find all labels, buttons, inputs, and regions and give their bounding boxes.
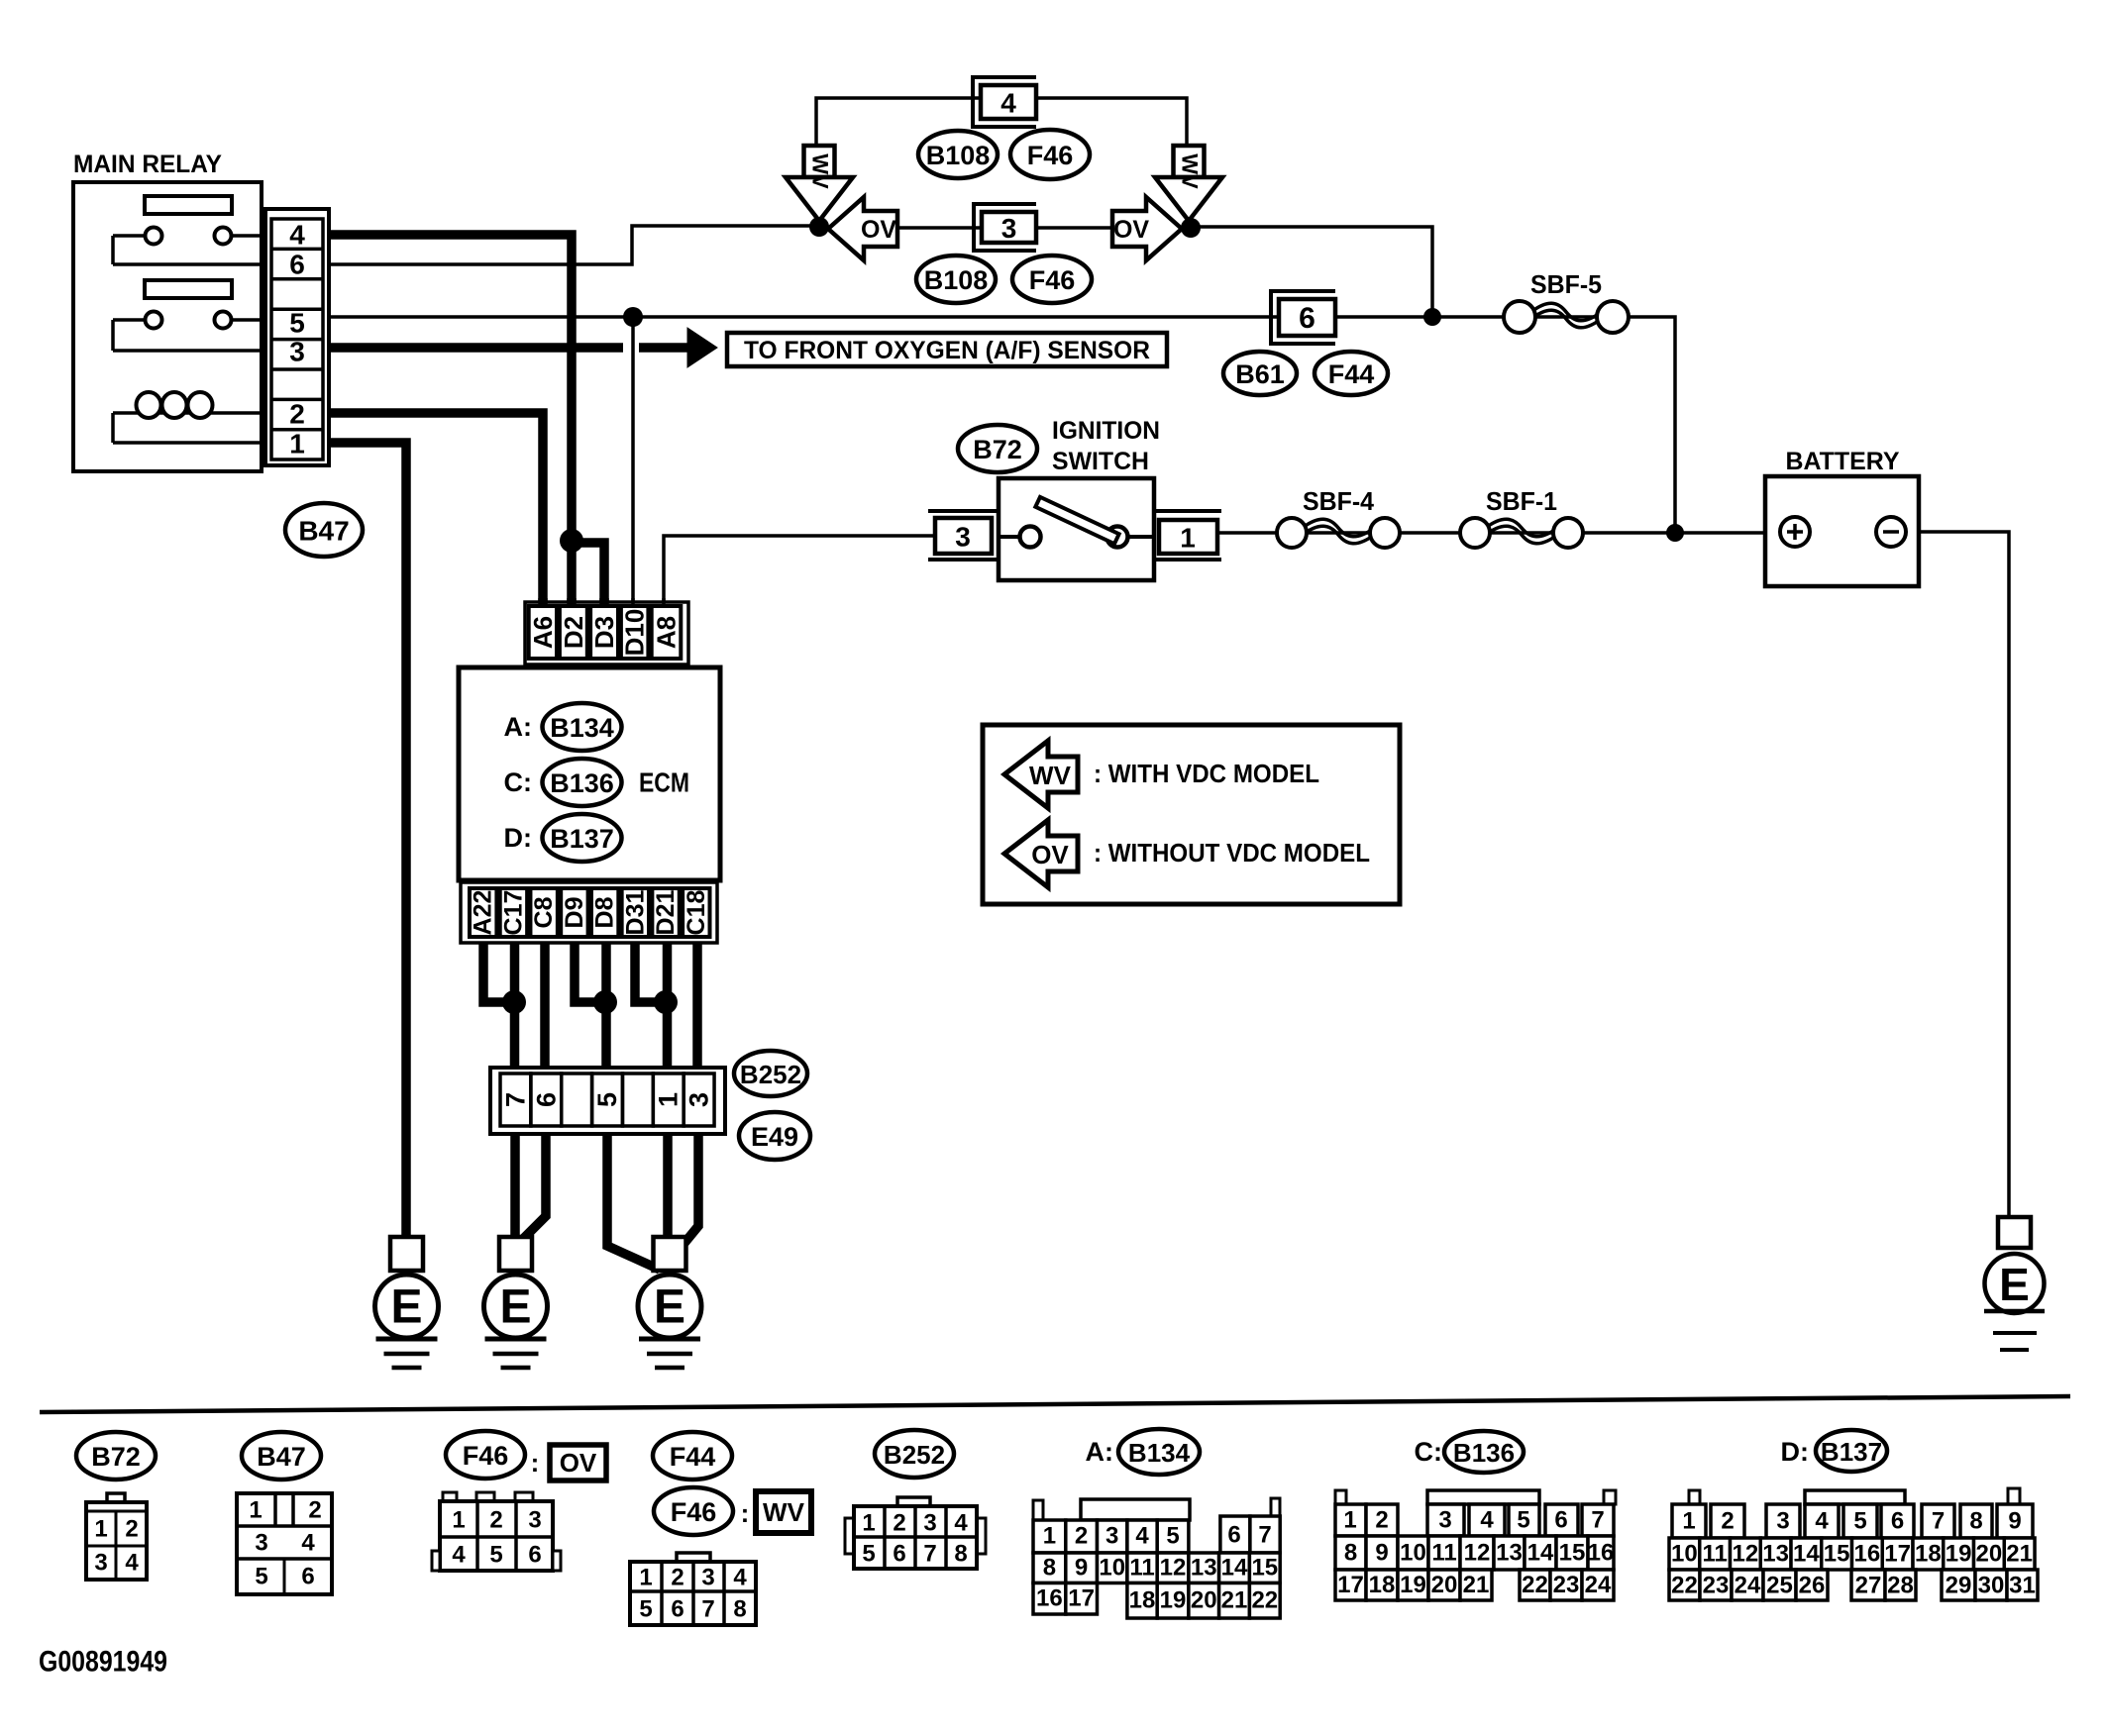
svg-text:26: 26 (1799, 1573, 1826, 1599)
svg-text:3: 3 (94, 1550, 107, 1577)
wire: ECM D21 down to B252 pin 1 (thick) (663, 939, 673, 1073)
svg-text:OV: OV (861, 216, 896, 244)
svg-text:1: 1 (862, 1510, 875, 1537)
wire: ECM A22 down to junction (thick) (483, 939, 514, 1002)
svg-text:3: 3 (289, 337, 305, 367)
svg-text:8: 8 (1969, 1508, 1982, 1535)
main relay connector strip B47 pins (265, 209, 329, 465)
svg-text:22: 22 (1671, 1573, 1698, 1599)
svg-text:1: 1 (249, 1497, 262, 1524)
wire: ECM D8 down to B252 pin 5 (thick) (601, 939, 611, 1073)
svg-text:E49: E49 (751, 1122, 798, 1152)
connector oval E49 (739, 1112, 810, 1160)
svg-text:16: 16 (1588, 1540, 1615, 1567)
wire: battery negative to right ground (thin) (1906, 532, 2009, 1221)
svg-text:12: 12 (1160, 1555, 1187, 1582)
svg-text:4: 4 (1480, 1507, 1494, 1534)
wire: branch from D2 node to ECM D3 (thick) (572, 543, 604, 610)
svg-text:19: 19 (1160, 1587, 1187, 1614)
svg-text:SBF-5: SBF-5 (1530, 269, 1602, 299)
svg-text:22: 22 (1251, 1587, 1278, 1614)
junction dot right WV/OV arrows (1181, 218, 1201, 238)
wire: ECM D31 down to junction (thick) (635, 939, 666, 1002)
svg-text:WV: WV (1029, 761, 1072, 790)
svg-text:20: 20 (1976, 1541, 2003, 1568)
wire: right junction down to SBF-5 line (thin) (1191, 227, 1432, 317)
svg-text:1: 1 (1180, 523, 1196, 554)
svg-text:5: 5 (289, 308, 305, 339)
svg-text:B108: B108 (924, 265, 989, 295)
svg-text:C:: C: (504, 767, 533, 797)
connector label B47 oval (285, 503, 363, 557)
svg-text:D:: D: (504, 823, 533, 853)
pinout connector F46 (443, 1492, 457, 1501)
svg-text:6: 6 (301, 1564, 314, 1590)
right WV arrow (with VDC) (1174, 146, 1205, 177)
svg-text:2: 2 (893, 1510, 905, 1537)
svg-text:B108: B108 (926, 141, 991, 170)
svg-text::: : (741, 1498, 750, 1528)
connector oval B61 (1223, 352, 1297, 395)
svg-text:6: 6 (1891, 1508, 1904, 1535)
svg-text:7: 7 (1591, 1507, 1604, 1534)
svg-text:D21: D21 (652, 889, 680, 935)
pinout connector B134 (1081, 1499, 1190, 1520)
svg-text:5: 5 (1853, 1508, 1866, 1535)
svg-text:ECM: ECM (639, 767, 689, 798)
svg-text:2: 2 (1375, 1507, 1388, 1534)
battery box (1765, 476, 1919, 586)
wire: B252 pin 3 to ground (thick) (681, 1126, 698, 1248)
svg-text:10: 10 (1400, 1540, 1426, 1567)
svg-text:F46: F46 (1029, 265, 1076, 295)
relay contact 1 terminals and wiring (113, 234, 146, 238)
svg-text:4: 4 (1135, 1523, 1149, 1550)
svg-text:A6: A6 (528, 616, 558, 649)
svg-text:7: 7 (701, 1596, 714, 1623)
svg-text:7: 7 (500, 1092, 530, 1107)
svg-text:F44: F44 (670, 1442, 716, 1472)
svg-text:D9: D9 (561, 897, 588, 929)
svg-text:8: 8 (1344, 1540, 1357, 1567)
pinout connector B252 (897, 1497, 930, 1506)
svg-text:13: 13 (1496, 1540, 1523, 1567)
svg-text:3: 3 (1001, 213, 1017, 244)
junction dot SBF-5 branch on connector-6 line (1423, 308, 1441, 326)
svg-text:B136: B136 (550, 768, 614, 798)
pinout oval B47 (242, 1432, 321, 1480)
svg-text:3: 3 (528, 1507, 541, 1534)
svg-text:11: 11 (1431, 1540, 1456, 1567)
svg-text:3: 3 (923, 1510, 936, 1537)
svg-text:D8: D8 (591, 896, 619, 928)
svg-text:E: E (1999, 1259, 2030, 1310)
svg-text:5: 5 (1166, 1523, 1179, 1550)
connector 6 in-line (1271, 291, 1335, 344)
connector oval B108 upper (918, 131, 998, 178)
svg-text:2: 2 (1721, 1508, 1734, 1535)
pinout connector B47 (237, 1493, 332, 1594)
svg-text:TO FRONT OXYGEN (A/F) SENSOR: TO FRONT OXYGEN (A/F) SENSOR (744, 337, 1150, 364)
svg-text:20: 20 (1191, 1587, 1217, 1614)
junction dot D9/D8 (593, 990, 617, 1014)
wire: B252 pin 1 to ground (thick) (663, 1126, 673, 1243)
svg-text:IGNITION: IGNITION (1052, 417, 1160, 445)
connector oval F46 lower (1012, 255, 1092, 303)
svg-text:B252: B252 (740, 1060, 801, 1089)
legend OV arrow (1004, 820, 1078, 887)
svg-text:SWITCH: SWITCH (1052, 448, 1149, 475)
wire: left OV arrow to connector 3 (thin) (896, 226, 981, 230)
wire: B252 pin 6 to ground (thick) (520, 1126, 546, 1242)
pinout connector B72 (107, 1493, 125, 1502)
wire: connector 6 node through SBF-5 down to battery line (thin) (1432, 317, 1675, 533)
wire: connector 3 to right OV arrow (thin) (1036, 226, 1113, 230)
wire: ECM C8 down to B252 pin 6 (thick) (540, 939, 550, 1073)
svg-text:23: 23 (1553, 1572, 1580, 1598)
separator line (40, 1396, 2070, 1412)
wire: B252 pin 7 to ground (thick) (510, 1126, 520, 1241)
ignition switch contacts and lever (999, 535, 1020, 539)
svg-text:OV: OV (1031, 840, 1069, 869)
svg-text:5: 5 (862, 1541, 875, 1568)
svg-text:3: 3 (1776, 1508, 1789, 1535)
svg-text:8: 8 (1043, 1555, 1056, 1582)
svg-text:3: 3 (1438, 1507, 1451, 1534)
pinout oval B72 (76, 1432, 156, 1480)
svg-text:F46: F46 (1027, 141, 1074, 170)
svg-text:1: 1 (639, 1565, 652, 1591)
svg-text:WV: WV (1178, 153, 1203, 189)
svg-text:A:: A: (504, 712, 533, 742)
svg-text:2: 2 (289, 399, 305, 430)
svg-text:B136: B136 (1453, 1438, 1515, 1468)
svg-text:B72: B72 (973, 435, 1022, 464)
svg-text:29: 29 (1946, 1573, 1972, 1599)
svg-text:12: 12 (1464, 1540, 1491, 1567)
svg-text:21: 21 (1463, 1572, 1490, 1598)
svg-text:5: 5 (489, 1542, 502, 1569)
svg-text:1: 1 (1043, 1523, 1056, 1550)
svg-text:10: 10 (1099, 1555, 1125, 1582)
svg-text:3: 3 (255, 1530, 267, 1557)
svg-text:4: 4 (452, 1542, 466, 1569)
wire: B252 pin 5 to ground (thick) (607, 1126, 660, 1270)
svg-text:6: 6 (289, 250, 305, 280)
svg-text:4: 4 (1000, 88, 1016, 119)
ECM box (459, 667, 720, 880)
left WV arrow (with VDC) (804, 146, 835, 177)
svg-text:17: 17 (1337, 1572, 1364, 1598)
junction dot at D2/D3 split (560, 529, 583, 553)
svg-text:A8: A8 (652, 616, 682, 649)
svg-text:3: 3 (1105, 1523, 1118, 1550)
svg-text:B47: B47 (257, 1442, 306, 1472)
svg-text:C:: C: (1415, 1437, 1443, 1467)
svg-text:6: 6 (671, 1596, 684, 1623)
svg-text:21: 21 (1221, 1587, 1248, 1614)
svg-text:2: 2 (1075, 1523, 1088, 1550)
svg-text:D2: D2 (559, 616, 588, 649)
wire: main relay pin 4 to ECM D2 (thick) (327, 235, 572, 610)
svg-text:1: 1 (1343, 1507, 1356, 1534)
svg-text:5: 5 (639, 1596, 652, 1623)
svg-text:7: 7 (923, 1541, 936, 1568)
svg-text:D:: D: (1781, 1437, 1810, 1467)
svg-text:A:: A: (1086, 1437, 1114, 1467)
right OV arrow (without VDC) (1112, 197, 1182, 260)
relay contact 1 bar (145, 196, 232, 214)
battery negative terminal (1876, 517, 1906, 547)
svg-text:B137: B137 (550, 824, 614, 854)
svg-text:G00891949: G00891949 (39, 1646, 167, 1679)
svg-text:23: 23 (1703, 1573, 1730, 1599)
connector oval F44 (1315, 352, 1388, 395)
svg-text:4: 4 (1815, 1508, 1829, 1535)
ECM top connector wire stubs (538, 598, 548, 608)
connector oval B252 (734, 1051, 807, 1096)
svg-text:F46: F46 (463, 1441, 509, 1471)
ground E (from main relay pin 1) (390, 1237, 423, 1271)
svg-text:11: 11 (1702, 1541, 1727, 1568)
svg-text:OV: OV (1113, 216, 1149, 244)
pinout oval F46 with WV tag (654, 1487, 733, 1535)
junction dot A22/C17 (502, 990, 526, 1014)
arrowhead to front oxygen sensor (687, 328, 717, 367)
svg-text:A22: A22 (470, 890, 497, 936)
connector oval B108 lower (916, 255, 996, 303)
svg-text:13: 13 (1762, 1541, 1789, 1568)
svg-text:4: 4 (954, 1510, 968, 1537)
svg-text:C18: C18 (683, 889, 710, 935)
svg-text:5: 5 (1517, 1507, 1529, 1534)
svg-text:16: 16 (1854, 1541, 1881, 1568)
fuse SBF-5 (1532, 303, 1600, 321)
svg-text:6: 6 (531, 1092, 561, 1107)
svg-text:C8: C8 (530, 896, 558, 928)
pinout oval B252 (875, 1430, 954, 1478)
svg-text:: WITH VDC MODEL: : WITH VDC MODEL (1094, 759, 1319, 788)
wire: main relay pin 6 up to WV/OV junction (thin) (327, 226, 819, 264)
wire: ignition switch pin 3 to ECM A8 (thin) (664, 536, 935, 610)
svg-text:B137: B137 (1821, 1437, 1882, 1467)
svg-text:8: 8 (733, 1596, 746, 1623)
svg-text:B72: B72 (91, 1442, 141, 1472)
junction dot D31/D21 (654, 990, 678, 1014)
wire: ECM C17 down to B252 pin 7 (thick) (510, 939, 520, 1073)
svg-text:9: 9 (1075, 1555, 1088, 1582)
svg-text:1: 1 (289, 429, 305, 460)
svg-text:27: 27 (1855, 1573, 1882, 1599)
svg-text:E: E (654, 1281, 685, 1334)
ground E (from B252 pins 5/1/3) (654, 1237, 686, 1271)
legend box (983, 725, 1400, 904)
wire: top loop through connector 4 (thin) (816, 98, 981, 145)
fuse SBF-1 (1487, 519, 1556, 537)
svg-text:4: 4 (733, 1565, 747, 1591)
svg-text:C17: C17 (499, 890, 527, 936)
svg-text:2: 2 (671, 1565, 684, 1591)
junction dot left WV/OV arrows (809, 217, 829, 237)
svg-text:2: 2 (308, 1497, 321, 1524)
svg-text:19: 19 (1946, 1541, 1972, 1568)
wire: main relay pin 3 oxygen sensor feed (thick) (327, 343, 623, 353)
svg-text:7: 7 (1932, 1508, 1945, 1535)
svg-text:9: 9 (2008, 1508, 2021, 1535)
ECM bottom connector pins A22 C17 C8 D9 D8 D31 D21 C18 (461, 882, 717, 943)
svg-text:WV: WV (808, 153, 833, 189)
svg-text:20: 20 (1431, 1572, 1458, 1598)
junction dot on pin-5 wire at D10 branch (623, 307, 643, 327)
ignition connector pin 1 (1154, 509, 1221, 513)
legend WV arrow (1004, 741, 1078, 808)
svg-text:B134: B134 (550, 713, 614, 743)
svg-text:25: 25 (1766, 1573, 1793, 1599)
pinout connector F44/F46 (677, 1553, 710, 1562)
svg-text:D3: D3 (589, 616, 619, 649)
wire: main relay pin 1 to ground E (thick) (327, 443, 406, 1241)
svg-text:E: E (499, 1281, 531, 1334)
svg-text:B134: B134 (1128, 1438, 1191, 1468)
svg-text:E: E (390, 1281, 422, 1334)
svg-text:SBF-4: SBF-4 (1303, 486, 1375, 516)
connector 3 in-line (974, 204, 1036, 251)
svg-text:1: 1 (452, 1507, 465, 1534)
svg-text:OV: OV (560, 1448, 597, 1478)
svg-text:B61: B61 (1235, 359, 1285, 389)
svg-text:D31: D31 (621, 889, 649, 935)
svg-text:16: 16 (1036, 1585, 1063, 1612)
svg-text:6: 6 (1227, 1522, 1240, 1549)
pinout connector B136 (1427, 1490, 1539, 1504)
svg-text:3: 3 (684, 1092, 714, 1107)
svg-text:1: 1 (654, 1092, 684, 1107)
svg-text:B252: B252 (884, 1440, 945, 1470)
label box TO FRONT OXYGEN (A/F) SENSOR (727, 333, 1167, 366)
pinout oval F46 with OV tag (446, 1431, 525, 1479)
svg-text:21: 21 (2006, 1541, 2033, 1568)
relay contact 2 terminals and wiring (113, 318, 146, 322)
svg-text:13: 13 (1191, 1555, 1217, 1582)
svg-text:17: 17 (1884, 1541, 1911, 1568)
svg-text:2: 2 (125, 1516, 138, 1543)
svg-text:D10: D10 (620, 609, 650, 657)
relay contact 2 bar (145, 280, 232, 298)
svg-text:18: 18 (1129, 1587, 1156, 1614)
battery positive terminal (1780, 517, 1810, 547)
svg-text:4: 4 (301, 1530, 315, 1557)
svg-text:9: 9 (1375, 1540, 1388, 1567)
connector 4 in-line (973, 77, 1036, 127)
svg-text:11: 11 (1129, 1555, 1154, 1582)
svg-text:6: 6 (528, 1542, 541, 1569)
svg-text:10: 10 (1671, 1541, 1698, 1568)
wire: ECM C18 down to B252 pin 3 (thick) (692, 939, 702, 1073)
wire: ignition feed through SBF-4 and SBF-1 to battery (thin) (1217, 531, 1780, 535)
svg-text:: WITHOUT VDC MODEL: : WITHOUT VDC MODEL (1094, 838, 1370, 868)
svg-text:15: 15 (1824, 1541, 1850, 1568)
wire: main relay pin 2 to ECM A6 (thick) (327, 413, 543, 610)
svg-text:3: 3 (701, 1565, 714, 1591)
svg-text:MAIN RELAY: MAIN RELAY (73, 151, 222, 178)
svg-text:8: 8 (954, 1541, 967, 1568)
svg-text:6: 6 (1554, 1507, 1567, 1534)
connector B252/E49 pins 7 6 5 1 3 (490, 1068, 725, 1134)
svg-text:5: 5 (255, 1564, 267, 1590)
svg-text:SBF-1: SBF-1 (1486, 486, 1557, 516)
svg-text:WV: WV (763, 1497, 805, 1527)
svg-text:30: 30 (1978, 1573, 2005, 1599)
left OV arrow (without VDC) (828, 197, 897, 260)
junction dot battery feed / SBF-5 (1666, 524, 1684, 542)
svg-text:14: 14 (1221, 1555, 1248, 1582)
svg-text:7: 7 (1258, 1522, 1271, 1549)
svg-text:4: 4 (125, 1550, 139, 1577)
ECM top connector pins A6 D2 D3 D10 A8 (525, 602, 688, 664)
svg-text:5: 5 (592, 1092, 622, 1107)
svg-text:1: 1 (1682, 1508, 1695, 1535)
svg-text:14: 14 (1793, 1541, 1820, 1568)
svg-text:B47: B47 (298, 516, 349, 547)
pinout connector B137 (1805, 1490, 1905, 1504)
svg-text:17: 17 (1068, 1585, 1095, 1612)
svg-text:28: 28 (1887, 1573, 1914, 1599)
svg-text:F46: F46 (671, 1497, 717, 1527)
svg-text:31: 31 (2009, 1573, 2036, 1599)
svg-text:BATTERY: BATTERY (1786, 448, 1900, 475)
wire: ECM D9 down to junction (thick) (575, 939, 605, 1002)
main relay box (73, 182, 262, 471)
connector oval B72 (958, 425, 1037, 472)
svg-text:18: 18 (1915, 1541, 1942, 1568)
svg-text:2: 2 (489, 1507, 502, 1534)
svg-text:19: 19 (1400, 1572, 1426, 1598)
wire: main relay pin 5 to connector 6 / SBF-5 node (thin) (327, 315, 1432, 319)
svg-text::: : (531, 1448, 540, 1478)
pinout oval F44 (653, 1432, 732, 1480)
ground E (from B252 pins 7/6) (499, 1237, 532, 1271)
wire: branch to ECM D10 (thin) (631, 317, 635, 610)
connector oval F46 upper (1010, 130, 1090, 179)
svg-text:F44: F44 (1328, 359, 1375, 389)
svg-text:6: 6 (1299, 302, 1315, 335)
ground E (battery negative) (1998, 1217, 2031, 1248)
svg-text:24: 24 (1585, 1572, 1612, 1598)
svg-text:15: 15 (1251, 1555, 1278, 1582)
fuse SBF-4 (1304, 519, 1373, 537)
relay coil (113, 411, 265, 415)
ignition switch box (999, 478, 1154, 580)
svg-text:3: 3 (955, 522, 971, 553)
svg-text:4: 4 (289, 220, 305, 251)
svg-text:12: 12 (1733, 1541, 1759, 1568)
svg-text:1: 1 (94, 1516, 107, 1543)
svg-text:22: 22 (1522, 1572, 1548, 1598)
svg-text:6: 6 (893, 1541, 905, 1568)
svg-text:24: 24 (1735, 1573, 1761, 1599)
svg-text:15: 15 (1559, 1540, 1586, 1567)
svg-text:14: 14 (1527, 1540, 1554, 1567)
ignition connector pin 3 (928, 509, 997, 513)
svg-text:18: 18 (1369, 1572, 1396, 1598)
